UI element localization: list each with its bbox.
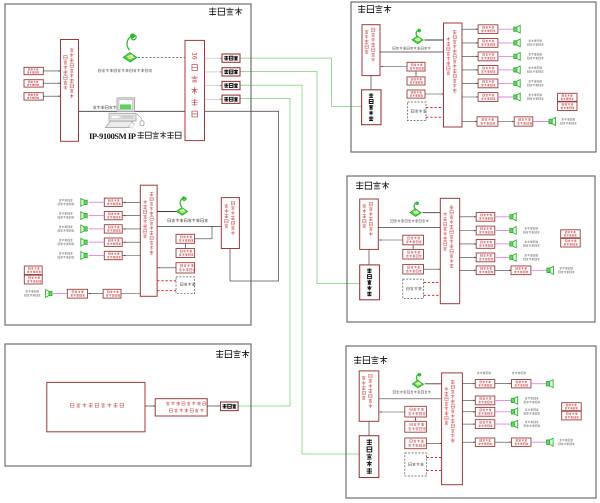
title resin workshop [356, 182, 389, 190]
power sequencer (resin) [561, 230, 581, 238]
wire big box to terminal (painting) [145, 405, 155, 407]
label above top amp 1 (stamping) [477, 372, 491, 375]
power amplifier row 4 (welding) [478, 66, 498, 75]
wire bottom amp to amp2 (welding) [498, 121, 514, 123]
wire amplifier to speaker row 1 (assembly) [89, 201, 105, 203]
wall speaker bottom (resin) [547, 266, 554, 274]
wire C to controller (stamping) [426, 442, 441, 444]
wire source2 to preamp [43, 82, 60, 84]
horn speaker row 3 (resin) [510, 240, 516, 248]
label speaker row 3 (resin) [525, 241, 539, 244]
zone controller tall box (stamping) [442, 373, 463, 485]
svg-text:16: 16 [190, 52, 197, 60]
wire amplifier to speaker row 2 (assembly) [89, 215, 105, 217]
panel: painting workshop [5, 344, 251, 466]
wall speaker bottom (stamping) [547, 438, 554, 446]
bottom power amplifier (stamping) [475, 380, 495, 388]
label speaker row 1 (stamping) [525, 397, 539, 400]
wire switch to fiber transceiver 4 [205, 98, 223, 100]
label speaker row 4 (assembly) [59, 239, 73, 242]
power amplifier row 3 (welding) [478, 52, 498, 61]
CD player box B (resin) [403, 249, 424, 259]
label speaker row 2 (welding) [529, 40, 543, 43]
cassette source [24, 93, 43, 100]
power amplifier row 3 (resin) [476, 240, 495, 249]
label speaker row 2 (resin) [525, 227, 539, 230]
label speaker row 5 (assembly) [59, 252, 73, 255]
wire amp2 to speaker (stamping) [531, 383, 547, 385]
zone controller tall box (resin) [440, 198, 459, 303]
label sound card input [93, 106, 117, 110]
wire controller to amplifier row 4 (resin) [460, 256, 477, 258]
label mic (resin) [391, 219, 429, 222]
wire amplifier to speaker row 1 (stamping) [495, 399, 511, 401]
wire controller to bottom amp (stamping) [462, 383, 475, 385]
wire preamp A to terminal (welding) [380, 66, 407, 68]
CD player source [24, 67, 43, 74]
horn speaker row 2 (resin) [510, 227, 516, 235]
label speaker row 6 (welding) [529, 94, 543, 97]
bottom power amplifier (stamping) [475, 438, 495, 446]
wire bottom amp to amp2 (stamping) [495, 383, 512, 385]
network audio terminal tall box (resin) [360, 199, 379, 249]
power amplifier row 1 (assembly) [104, 198, 122, 206]
horn speaker row 4 (welding) [514, 66, 520, 74]
title assembly workshop [209, 8, 242, 16]
wire mic to switch [138, 57, 185, 59]
power amplifier row 1 (stamping) [475, 396, 495, 405]
tuner box C (stamping) [405, 438, 427, 449]
label mic (stamping) [393, 390, 431, 393]
bottom amplifier 2 (stamping) [512, 438, 532, 446]
wire amplifier to speaker row 4 (resin) [495, 256, 510, 258]
bottom row label (assembly) [26, 290, 40, 293]
tuner box C (welding) [407, 90, 425, 98]
wire amplifier to speaker row 3 (assembly) [89, 228, 105, 230]
title painting workshop [216, 350, 249, 358]
wire mic to controller (stamping) [425, 383, 442, 385]
wire controller to amplifier row 1 (stamping) [462, 399, 475, 401]
horn speaker row 2 (welding) [514, 39, 520, 47]
power sequencer (stamping) [562, 403, 582, 411]
wire: switch port4 green fiber link to painting workshop [238, 99, 290, 407]
paging microphone (resin) [410, 201, 421, 216]
wire controller to amplifier row 3 (stamping) [462, 423, 475, 425]
wire controller to network terminal (assembly) [157, 226, 221, 228]
wire C to controller (assembly) [157, 267, 176, 269]
svg-text:IP-9100SM IP: IP-9100SM IP [89, 131, 136, 141]
label speaker row 2 (stamping) [525, 408, 539, 411]
fiber optic transceiver tall box (resin) [360, 265, 380, 300]
horn speaker row 3 (welding) [514, 53, 520, 61]
fiber optic transceiver tall box (stamping) [359, 436, 379, 478]
label mic (assembly lower) [168, 219, 208, 223]
wire amplifier to speaker row 4 (assembly) [89, 241, 105, 243]
wire amplifier to speaker row 4 (welding) [498, 69, 514, 71]
wire controller to amplifier row 2 (welding) [462, 42, 478, 44]
wire B to A (resin) [412, 245, 414, 250]
UPS power (welding) [558, 102, 578, 111]
zone controller tall box (assembly) [140, 185, 157, 296]
UPS power (assembly) [24, 275, 42, 284]
label speaker row 3 (stamping) [525, 421, 539, 424]
red dashed wire monitor 1 (resin) [424, 282, 441, 284]
wire amp2 to speaker (resin) [531, 269, 547, 271]
panel: welding workshop [351, 2, 596, 152]
power amplifier row 4 (assembly) [104, 238, 122, 246]
UPS power (stamping) [562, 411, 582, 420]
preamp bottom (assembly) [103, 289, 121, 298]
fiber optic transceiver tall box (welding) [362, 90, 381, 125]
preamp box A (welding) [407, 62, 425, 71]
wire switch to fiber transceiver 1 [205, 57, 223, 59]
red dashed wire to monitor 1 (assembly) [157, 280, 176, 282]
paging microphone (stamping) [412, 373, 423, 388]
wall speaker bottom (welding) [549, 118, 556, 126]
bottom power amplifier (welding) [477, 117, 498, 126]
network terminal box (painting) [155, 399, 207, 416]
wire amplifier to speaker row 3 (resin) [495, 243, 510, 245]
wire terminal to fiber transceiver (stamping) [368, 421, 370, 435]
wire C to controller (welding) [425, 93, 444, 95]
wire terminal to fiber transceiver (resin) [368, 249, 370, 265]
bottom amplifier 2 (resin) [511, 266, 531, 275]
label speaker row 3 (welding) [529, 53, 543, 56]
power amplifier row 1 (welding) [478, 25, 498, 34]
fiber optic transceiver box 4 (assembly port 4) [222, 95, 240, 103]
wire controller to amplifier row 5 (assembly) [122, 255, 140, 257]
power amplifier row 3 (stamping) [475, 420, 495, 429]
label speaker row 4 (resin) [525, 254, 539, 257]
paging microphone (assembly lower) [176, 196, 187, 215]
wire amplifier to speaker row 2 (stamping) [495, 411, 511, 413]
power amplifier bottom (assembly) [67, 289, 87, 298]
preamp box A (assembly) [176, 234, 195, 243]
red dashed wire monitor 2 (stamping) [426, 470, 441, 472]
wire: switch port2 green fiber link to resin workshop [240, 72, 360, 284]
wire: switch port3 green fiber link to stamping workshop [240, 85, 360, 454]
preamp box A (stamping) [405, 406, 427, 417]
preamp box A (resin) [403, 235, 424, 245]
wire B to A (assembly) [184, 243, 186, 248]
wire B to A (stamping) [415, 417, 417, 421]
wire amplifier to speaker row 3 (welding) [498, 55, 514, 57]
power amplifier row 5 (welding) [478, 79, 498, 88]
wire terminal bus to controller (resin) [378, 227, 440, 229]
wire mic to controller (resin) [423, 212, 441, 214]
power amplifier row 4 (resin) [476, 253, 495, 262]
panel: stamping workshop [346, 346, 596, 498]
monitor speaker dashed box (welding) [408, 102, 427, 121]
wire amplifier to speaker row 2 (resin) [495, 230, 510, 232]
monitor speaker dashed box (stamping) [405, 453, 427, 476]
monitor speaker dashed box (assembly) [176, 277, 195, 294]
wire controller to amplifier row 3 (welding) [462, 55, 478, 57]
bottom amplifier 2 (stamping) [512, 380, 532, 388]
wire amplifier to speaker row 2 (welding) [498, 42, 514, 44]
wire preamp A to terminal (stamping) [379, 411, 405, 413]
label bottom speaker (stamping) [560, 439, 574, 442]
horn speaker row 5 (assembly) [81, 252, 87, 260]
wire controller to amplifier row 2 (resin) [460, 230, 477, 232]
wire amplifier to speaker row 1 (welding) [498, 28, 514, 30]
wire amp to amp bottom (assembly) [88, 293, 104, 295]
wire box A up to bus (assembly) [195, 227, 212, 239]
horn speaker row 1 (welding) [514, 25, 520, 33]
red dashed wire monitor 2 (resin) [424, 294, 441, 296]
bottom amplifier 2 (welding) [514, 117, 533, 126]
wire switch to fiber transceiver 3 [205, 85, 223, 87]
label mic (welding) [393, 47, 431, 50]
title stamping workshop [354, 356, 387, 364]
wire bottom amp to amp2 (resin) [495, 269, 511, 271]
wire controller to amplifier row 2 (stamping) [462, 411, 475, 413]
wire controller to amplifier row 4 (welding) [462, 69, 478, 71]
power amplifier row 3 (assembly) [104, 225, 122, 233]
CD player box B (stamping) [405, 421, 427, 432]
wire terminal to fiber transceiver (welding) [370, 76, 372, 90]
horn speaker row 2 (stamping) [511, 408, 517, 416]
wire controller to amplifier row 3 (assembly) [122, 228, 140, 230]
fiber optic transceiver box 2 (assembly port 2) [222, 68, 240, 76]
label speaker row 3 (assembly) [59, 226, 73, 229]
fiber optic transceiver box 1 (assembly port 1) [222, 54, 240, 62]
wire: switch port1 green fiber link to welding workshop [240, 58, 362, 106]
UPS power (resin) [561, 238, 581, 247]
wire controller to amplifier row 2 (assembly) [122, 215, 140, 217]
red dashed wire to monitor 2 (assembly) [157, 290, 176, 292]
original PA system big box (painting) [47, 382, 145, 431]
fiber optic transceiver box 3 (assembly port 3) [222, 81, 240, 89]
wire controller to amplifier row 3 (resin) [460, 243, 477, 245]
wire controller to amplifier row 1 (welding) [462, 28, 478, 30]
wire controller to amplifier row 4 (assembly) [122, 241, 140, 243]
tuner source [24, 80, 43, 87]
power amplifier row 2 (stamping) [475, 407, 495, 416]
tuner box C (resin) [403, 264, 424, 274]
panel: resin workshop [347, 176, 595, 322]
tuner box C (assembly) [176, 263, 195, 273]
red dashed wire monitor 1 (stamping) [426, 457, 441, 459]
paging microphone (welding) [412, 29, 423, 44]
wire amplifier to speaker row 6 (welding) [498, 96, 514, 98]
wire terminal to fiber transceiver (painting) [207, 405, 220, 407]
wire bottom amp to amp2 (stamping) [495, 441, 512, 443]
power amplifier row 5 (assembly) [104, 251, 122, 259]
wire amplifier to speaker row 5 (assembly) [89, 255, 105, 257]
network audio terminal tall box (stamping) [359, 371, 379, 421]
network audio terminal tall box (assembly) [221, 198, 239, 249]
title welding workshop [358, 5, 391, 13]
horn speaker row 1 (assembly) [81, 198, 87, 206]
CD player box B (assembly) [176, 249, 195, 258]
wire amp2 to speaker (welding) [533, 121, 549, 123]
label speaker row 2 (assembly) [59, 212, 73, 215]
label IP-9116JM network paging mic [98, 69, 152, 72]
label speaker row 1 (assembly) [59, 199, 73, 202]
computer IP-9100SM master control [106, 98, 145, 128]
wire controller to amplifier row 5 (welding) [462, 82, 478, 84]
power sequencer (assembly) [24, 266, 42, 275]
paging microphone IP-9116JM (assembly) [123, 33, 137, 62]
power amplifier row 2 (resin) [476, 226, 495, 235]
horn speaker row 3 (assembly) [81, 225, 87, 233]
wire amplifier to speaker row 3 (stamping) [495, 423, 511, 425]
horn speaker row 1 (stamping) [511, 397, 517, 405]
wire C to controller (resin) [424, 268, 441, 270]
wire switch to fiber transceiver 2 [205, 71, 223, 73]
label above top amp 2 (stamping) [512, 372, 526, 375]
wire controller to bottom amp (welding) [462, 121, 477, 123]
wire mic to controller (welding) [425, 39, 444, 41]
label bottom speaker (welding) [562, 118, 576, 121]
wire controller to bottom amp (stamping) [462, 441, 475, 443]
panel: assembly workshop [5, 4, 251, 325]
red dashed wire monitor 2 (welding) [426, 116, 444, 118]
wire amplifier to speaker row 5 (welding) [498, 82, 514, 84]
wire: switch to remote terminal path [205, 111, 279, 281]
horn speaker row 5 (welding) [514, 80, 520, 88]
horn speaker row 3 (stamping) [511, 420, 517, 428]
fiber optic transceiver (painting) [221, 402, 239, 411]
red dashed wire monitor 1 (welding) [426, 107, 444, 109]
power amplifier row 2 (welding) [478, 39, 498, 48]
wire controller to amplifier row 1 (assembly) [122, 201, 140, 203]
horn speaker row 2 (assembly) [81, 212, 87, 220]
wire amplifier to speaker row 1 (resin) [495, 216, 510, 218]
wall speaker bottom (stamping) [547, 380, 554, 388]
horn speaker row 4 (assembly) [81, 238, 87, 246]
power amplifier row 6 (welding) [478, 93, 498, 102]
wire controller to amplifier row 1 (resin) [460, 216, 477, 218]
wire controller to amplifier row 6 (welding) [462, 96, 478, 98]
horn speaker row 4 (resin) [510, 254, 516, 262]
wire terminal bus to controller (welding) [380, 51, 444, 53]
wire source1 to preamp [43, 70, 60, 72]
CD player box B (welding) [407, 77, 425, 85]
wire amp2 to speaker (stamping) [531, 441, 547, 443]
wall speaker bottom row (assembly) [46, 290, 52, 298]
power amplifier row 1 (resin) [476, 212, 495, 221]
label speaker row 4 (welding) [529, 67, 543, 70]
label speaker row 5 (welding) [529, 80, 543, 83]
wire controller to bottom amp (resin) [460, 269, 477, 271]
label bottom speaker (resin) [560, 267, 574, 270]
wire source3 to preamp [43, 95, 60, 97]
power sequencer (welding) [558, 93, 578, 101]
monitor speaker dashed box (resin) [403, 279, 424, 298]
horn speaker row 6 (welding) [514, 93, 520, 101]
16-port switch tall box [185, 40, 205, 140]
horn speaker row 1 (resin) [510, 213, 516, 221]
wire preamp A to terminal (resin) [378, 239, 403, 241]
power amplifier row 2 (assembly) [104, 211, 122, 219]
wire to controller bottom (assembly) [121, 293, 140, 295]
zone controller tall box (welding) [444, 23, 463, 127]
wire terminal bus to controller (stamping) [379, 398, 442, 400]
bottom power amplifier (resin) [476, 266, 495, 275]
main control preamp tall box [61, 40, 79, 142]
wire: audio bus line computer to switch [79, 110, 186, 112]
wire speaker to amp bottom (assembly) [53, 293, 67, 295]
wire controller to mic (assembly lower) [157, 211, 182, 213]
wire B to A (welding) [415, 71, 417, 77]
network audio terminal tall box (welding) [362, 25, 380, 76]
